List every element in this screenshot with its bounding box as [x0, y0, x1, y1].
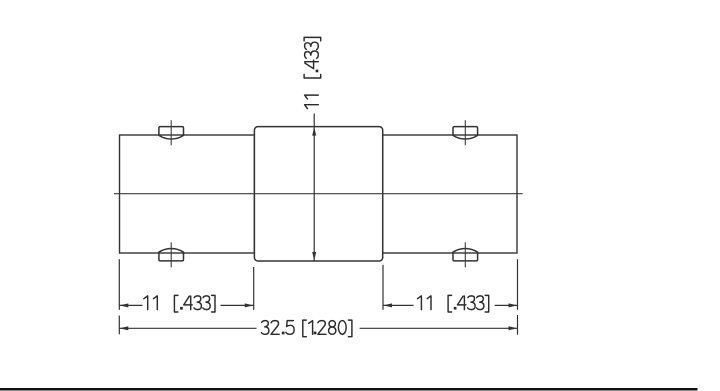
dim text 11 [.433] (bottom-right)	[418, 295, 489, 312]
bayonet pin bottom-left	[159, 248, 184, 260]
left lower dimension line left segment	[119, 304, 142, 306]
overall dimension extension line right	[517, 315, 519, 335]
left lower dimension extension line B	[253, 267, 255, 310]
pin centerline top-right	[464, 120, 466, 145]
dim text 11 [.433] (bottom-left)	[144, 295, 215, 312]
dim text 11 [.433] (vertical, rotated)	[304, 37, 321, 108]
overall dimension line right segment	[360, 327, 518, 329]
bayonet pin top-left	[159, 127, 184, 139]
arrowhead left	[383, 303, 392, 307]
left lower dimension extension line A	[118, 259, 120, 310]
arrowhead right	[509, 326, 518, 330]
overall dimension line left segment	[119, 327, 256, 329]
right lower dimension line left segment	[383, 304, 414, 306]
center body outline	[254, 127, 382, 261]
right lower dimension extension line B	[517, 259, 519, 310]
right lower dimension extension line A	[382, 265, 384, 310]
right BNC body outline	[383, 135, 517, 253]
right lower dimension line right segment	[495, 304, 518, 306]
left lower dimension line right segment	[221, 304, 254, 306]
arrowhead down	[312, 252, 316, 261]
arrowhead left	[119, 303, 128, 307]
pin centerline bottom-left	[170, 242, 172, 267]
dim text 32.5 [1.280] (overall)	[262, 320, 352, 337]
horizontal centerline	[114, 193, 523, 195]
arrowhead right	[245, 303, 254, 307]
arrowhead left	[119, 326, 128, 330]
left BNC body outline	[120, 135, 255, 253]
bayonet pin top-right	[453, 127, 478, 139]
pin centerline top-left	[170, 120, 172, 145]
arrowhead up	[312, 127, 316, 136]
pin centerline bottom-right	[464, 242, 466, 267]
bottom border rule	[0, 388, 698, 391]
bayonet pin bottom-right	[453, 248, 478, 260]
vertical dimension line	[313, 114, 315, 261]
overall dimension extension line left	[118, 316, 120, 335]
arrowhead right	[509, 303, 518, 307]
